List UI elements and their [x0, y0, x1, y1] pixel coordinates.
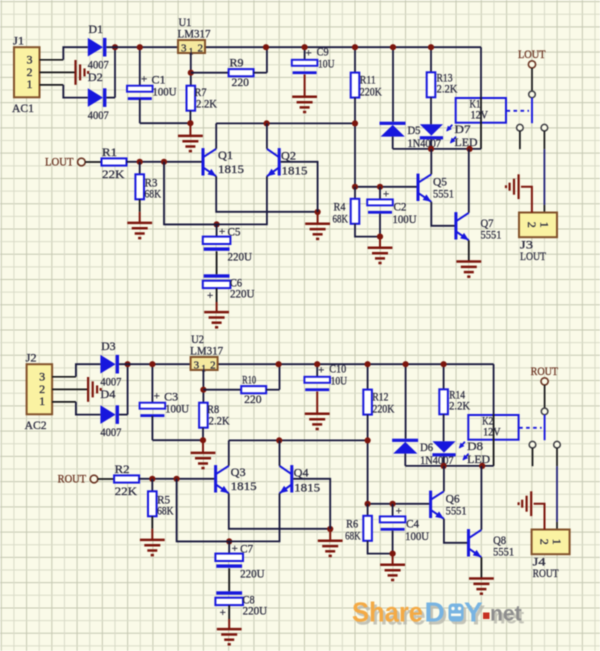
resistor R5 68K [148, 491, 157, 516]
wire rail to K2 [493, 364, 495, 415]
wire rectifier output [119, 414, 128, 416]
wire R11 down [354, 98, 356, 187]
svg-text:22K: 22K [115, 484, 138, 498]
ground below Q7 [456, 262, 481, 277]
transistor Q2 1815 (mirrored) [267, 148, 279, 176]
svg-text:12V: 12V [483, 424, 501, 438]
relay common contact [529, 91, 536, 98]
transistor Q8 5551 [469, 529, 482, 557]
wire U2 adj [202, 370, 204, 403]
wire Q3 collector [228, 440, 230, 465]
wire rail to D6 [405, 364, 407, 439]
svg-text:3: 3 [194, 360, 200, 372]
relay contact NO [541, 124, 548, 131]
junction (115,47.2) [125, 361, 131, 367]
wire to R4 [354, 187, 356, 199]
junction (469.6,148.9) [479, 463, 485, 469]
svg-text:100U: 100U [165, 402, 189, 416]
J2 pin 3 lead [52, 376, 76, 378]
svg-text:D4: D4 [100, 387, 115, 401]
ground below R7 [178, 136, 203, 151]
svg-text:1: 1 [39, 394, 45, 408]
ground below C2 [368, 248, 393, 263]
svg-text:+: + [306, 48, 312, 60]
svg-text:220U: 220U [243, 603, 268, 617]
junction (190.8,72.7) [200, 387, 206, 393]
wire to C7 [228, 541, 230, 553]
transistor Q3 1815 [216, 465, 229, 493]
svg-text:100U: 100U [393, 212, 417, 226]
ground below R3 [127, 223, 152, 238]
transistor Q6 5551 [431, 491, 444, 519]
wire U1 adj [190, 53, 192, 86]
svg-text:D1: D1 [89, 22, 104, 36]
resistor R3 68K [135, 174, 144, 199]
ground at emitter node [305, 224, 330, 239]
relay K1 coil line [480, 98, 482, 149]
svg-text:220U: 220U [230, 286, 255, 300]
svg-text:5551: 5551 [481, 227, 502, 241]
wire R6 bottom [368, 541, 393, 554]
wire R4 bottom [355, 224, 380, 237]
ground below C9 [292, 97, 317, 112]
junction (393,47.2) [390, 44, 396, 50]
junction (266.6,123.4) [264, 120, 270, 126]
resistor R1 22K [102, 158, 127, 165]
wire Q2 emitter [164, 176, 267, 224]
capacitor C5 220U [203, 237, 231, 244]
svg-text:220K: 220K [372, 402, 394, 416]
svg-text:R1: R1 [102, 145, 117, 159]
capacitor C6 220U [204, 274, 230, 277]
svg-text:1815: 1815 [282, 163, 308, 177]
wire rail to R14 [443, 364, 445, 389]
svg-text:+: + [383, 189, 389, 201]
wire D6 anode [404, 454, 406, 466]
wire C7 to C8 [228, 568, 230, 591]
svg-text:LM317: LM317 [190, 344, 223, 358]
connector J4 (ROUT) [532, 530, 570, 555]
resistor R2 22K [114, 475, 139, 482]
stem [316, 392, 318, 414]
stem [216, 302, 218, 312]
svg-text:C7: C7 [240, 542, 253, 556]
svg-text:1: 1 [537, 222, 551, 228]
svg-text:4007: 4007 [100, 425, 121, 439]
wire port to contact [531, 68, 533, 91]
relay K2 coil line [493, 415, 495, 466]
svg-text:5551: 5551 [446, 503, 467, 517]
svg-text:220K: 220K [360, 85, 382, 99]
wire to C4 [392, 504, 394, 517]
svg-text:1815: 1815 [218, 162, 244, 176]
relay common contact [541, 408, 548, 415]
svg-text:68K: 68K [157, 504, 174, 518]
svg-text:C5: C5 [228, 225, 241, 239]
wire NC stub [519, 131, 521, 149]
wire port to R1 [85, 161, 101, 163]
svg-text:J1: J1 [13, 34, 24, 48]
junction (380,186.8) [377, 184, 383, 190]
junction (216.6,224.4) [226, 538, 232, 544]
connector J3 (LOUT) [519, 213, 557, 238]
diode D6 1N4007 [392, 439, 418, 442]
wire base row in [127, 161, 202, 163]
wire adj to R10 [203, 389, 241, 391]
svg-text:10U: 10U [318, 56, 335, 70]
svg-text:Y: Y [464, 597, 483, 628]
svg-text:2: 2 [525, 222, 539, 228]
junction (431,47.2) [428, 44, 434, 50]
wire R3 to ground [139, 199, 141, 212]
wire C3 to gnd net [151, 416, 153, 440]
svg-text:D2: D2 [88, 70, 103, 84]
stem [139, 212, 141, 223]
wire to R3 [139, 162, 141, 175]
resistor R12 220K [363, 390, 372, 415]
J1 pin 3 lead [40, 59, 64, 61]
ground at J4 [519, 491, 532, 516]
junction (190.8,72.7) [188, 70, 194, 76]
connector J1 (AC1) [14, 47, 40, 97]
svg-text:+: + [207, 290, 213, 302]
svg-text:+: + [141, 74, 147, 86]
stem [228, 619, 230, 629]
junction (317.6,212) [327, 526, 333, 532]
svg-text:+: + [318, 365, 324, 377]
contact arm [544, 415, 546, 441]
wire NO to J4 [556, 466, 558, 522]
svg-text:AC2: AC2 [25, 418, 47, 432]
svg-text:5551: 5551 [433, 186, 454, 200]
svg-text:1815: 1815 [231, 479, 257, 493]
svg-text:2.2K: 2.2K [449, 399, 470, 413]
svg-text:2.2K: 2.2K [209, 414, 230, 428]
svg-text:LM317: LM317 [178, 27, 211, 41]
wire NO stub [543, 131, 545, 149]
wire C5 to C6 [216, 251, 218, 274]
ground below C4 [380, 565, 405, 580]
resistor R6 68K [363, 516, 372, 541]
wire to C3 [151, 364, 153, 403]
resistor R7 2.2K [187, 86, 196, 111]
diode D4 4007 [100, 405, 115, 424]
wire pin3 to rail [63, 47, 88, 60]
J1 pin 1 lead [40, 84, 64, 86]
wire NO stub [556, 448, 558, 466]
svg-text:2.2K: 2.2K [437, 82, 458, 96]
junction (190.4,123.2) [187, 120, 193, 126]
capacitor C2 100U [367, 199, 393, 205]
wire rail to C10 [316, 364, 318, 377]
svg-text:220U: 220U [228, 250, 253, 264]
junction (304.6,47.2) [302, 44, 308, 50]
svg-text:D7: D7 [455, 122, 471, 136]
junction (355,47.2) [365, 361, 371, 367]
junction (190.4,123.2) [200, 437, 206, 443]
wire Q7 collector [468, 149, 470, 213]
ground below R8 [191, 453, 216, 468]
svg-text:AC1: AC1 [12, 101, 34, 115]
junction (393,47.2) [403, 361, 409, 367]
svg-text:+: + [232, 543, 238, 555]
wire Q4 emitter [177, 493, 280, 541]
ground below R5 [140, 540, 165, 555]
svg-text:net: net [490, 603, 522, 626]
svg-text:2: 2 [210, 360, 216, 372]
ground at J1 pin 2 [76, 60, 89, 85]
watermark ShareDIY.net [352, 597, 524, 631]
svg-text:+: + [396, 506, 402, 518]
relay K2 12V [468, 415, 518, 440]
svg-text:Q2: Q2 [281, 149, 296, 163]
junction (266,47.2) [263, 44, 269, 50]
junction (431,47.2) [441, 361, 447, 367]
wire R10 to rail [266, 389, 279, 391]
junction (139.8,47.2) [137, 44, 143, 50]
junction (139.8,47.2) [149, 361, 155, 367]
wire +V rail [119, 363, 494, 365]
transistor Q4 1815 (mirrored) [280, 465, 292, 493]
junction (164,161.8) [174, 476, 180, 482]
ground below C8 [217, 629, 242, 644]
wire Q6 collector [443, 466, 445, 491]
relay contact NC [517, 124, 524, 131]
junction (380,236.6) [390, 551, 396, 557]
junction (355,123.4) [352, 120, 358, 126]
capacitor C4 100U [380, 516, 406, 522]
svg-text:68K: 68K [333, 212, 349, 226]
stem [202, 440, 204, 452]
wire Q8 emitter [480, 557, 482, 578]
resistor R4 68K [351, 199, 360, 224]
stem [379, 237, 381, 248]
svg-text:LED: LED [467, 452, 490, 466]
svg-text:22K: 22K [102, 167, 125, 181]
wire rail to K1 [480, 47, 482, 98]
svg-text:+: + [220, 607, 226, 619]
ground at J2 pin 2 [88, 377, 101, 402]
svg-text:D6: D6 [420, 440, 433, 454]
wire NC stub [532, 448, 534, 466]
resistor R10 220 [241, 386, 266, 393]
capacitor C7 220U [215, 554, 243, 561]
wire relay bottom loop [393, 148, 481, 150]
wire Q2 collector [266, 123, 268, 148]
wire port to R2 [98, 478, 114, 480]
svg-text:+: + [154, 391, 160, 403]
stem [151, 529, 153, 540]
junction (216.6,224.4) [214, 221, 220, 227]
resistor R8 2.2K [199, 403, 208, 428]
wire Q5 emitter [431, 202, 454, 226]
svg-text:+: + [219, 226, 225, 238]
wire R13 to D7 [430, 97, 432, 124]
svg-text:1: 1 [550, 539, 564, 545]
svg-text:100U: 100U [405, 529, 429, 543]
diode D5 1N4007 [380, 122, 406, 125]
relay contact NO [554, 441, 561, 448]
svg-text:Share: Share [352, 597, 423, 628]
junction (380,236.6) [377, 234, 383, 240]
regulator U1 LM317 [178, 40, 205, 53]
junction (266.6,123.4) [276, 437, 282, 443]
wire adj to R9 [191, 72, 229, 74]
resistor R14 2.2K [439, 389, 448, 414]
ground at emitter node [318, 541, 343, 556]
junction (355,186.8) [352, 184, 358, 190]
J2 pin 1 lead [52, 401, 76, 403]
svg-text:1815: 1815 [294, 480, 320, 494]
capacitor C3 100U [140, 403, 166, 409]
svg-text:LED: LED [455, 135, 478, 149]
svg-text:2: 2 [538, 539, 552, 545]
wire rail to R13 [430, 47, 432, 72]
wire D8 cathode [443, 456, 445, 466]
ground at J3 [506, 174, 519, 199]
svg-text:R10: R10 [242, 373, 256, 387]
wire Q4 base [293, 479, 330, 529]
wire to C1 [139, 47, 141, 85]
wire C6 to ground [216, 288, 218, 302]
wire Q1 collector [215, 123, 217, 148]
ground below C6 [204, 312, 229, 327]
wire R9 to rail [254, 72, 267, 74]
junction (317.6,212) [315, 209, 321, 215]
junction (164,161.8) [161, 159, 167, 165]
capacitor C8 220U [216, 591, 242, 594]
junction (355,47.2) [352, 44, 358, 50]
wire Q1 emitter [216, 176, 317, 212]
svg-text:D: D [425, 597, 445, 628]
contact arm [531, 98, 533, 124]
wire to R5 [151, 479, 153, 492]
wire C1 to gnd net [139, 99, 141, 123]
svg-text:J2: J2 [26, 351, 37, 365]
svg-text:3: 3 [181, 43, 187, 55]
wire C2 bottom [379, 214, 381, 237]
J2 pin 2 lead [52, 388, 87, 390]
wire rail to D5 [392, 47, 394, 122]
junction (469.6,148.9) [467, 146, 473, 152]
junction (355,123.4) [365, 437, 371, 443]
svg-text:2.2K: 2.2K [196, 97, 217, 111]
ground below C10 [305, 414, 330, 429]
wire mid rail [216, 122, 355, 124]
svg-text:ROUT: ROUT [58, 471, 87, 485]
LED D7 [420, 124, 443, 135]
wire C8 to ground [228, 605, 230, 619]
wire rail to C9 [304, 47, 306, 60]
junction (266,47.2) [276, 361, 282, 367]
wire base row [355, 186, 417, 188]
wire rail to R11 [354, 47, 356, 72]
capacitor C10 10U [304, 377, 330, 383]
wire C4 bottom [392, 531, 394, 554]
wire pin1 to lower diode [63, 85, 88, 98]
svg-text:220: 220 [232, 75, 250, 89]
svg-text:Q4: Q4 [294, 466, 309, 480]
svg-text:LOUT: LOUT [520, 249, 547, 263]
transistor Q5 5551 [418, 174, 431, 202]
svg-text:LOUT: LOUT [518, 47, 546, 61]
junction (115,47.2) [112, 44, 118, 50]
junction (139.7,161.8) [137, 159, 143, 165]
svg-text:68K: 68K [345, 529, 361, 543]
svg-text:220U: 220U [240, 567, 265, 581]
junction (380,186.8) [390, 501, 396, 507]
diode D2 4007 [88, 88, 103, 107]
transistor Q7 5551 [456, 212, 469, 240]
capacitor C1 100U [127, 86, 153, 92]
svg-text:D8: D8 [467, 439, 483, 453]
wire feedback left [164, 162, 217, 225]
dashed actuator link [507, 110, 530, 112]
junction (355,186.8) [365, 501, 371, 507]
svg-text:R2: R2 [115, 462, 130, 476]
svg-text:10U: 10U [331, 373, 348, 387]
ground below Q8 [469, 579, 494, 594]
resistor R13 2.2K [427, 72, 436, 97]
wire D7 cathode [430, 139, 432, 149]
diode D1 4007 [88, 38, 103, 57]
stem [189, 123, 191, 135]
wire rail to R12 [367, 364, 369, 389]
svg-text:D3: D3 [101, 339, 116, 353]
wire mid rail [229, 439, 368, 441]
wire port to contact [544, 385, 546, 408]
connector J2 (AC2) [27, 364, 52, 414]
stem [392, 554, 394, 565]
capacitor C9 10U [292, 60, 318, 66]
svg-text:ROUT: ROUT [533, 566, 560, 580]
svg-text:Q1: Q1 [218, 148, 233, 162]
wire Q4 collector [279, 440, 281, 465]
relay contact NC [529, 441, 536, 448]
svg-text:ROUT: ROUT [531, 364, 559, 378]
wire rectifier output [107, 97, 116, 99]
wire R12 down [367, 415, 369, 504]
wire Q5 collector [430, 149, 432, 174]
svg-text:100U: 100U [153, 85, 177, 99]
svg-text:D5: D5 [408, 123, 421, 137]
svg-text:1: 1 [27, 77, 33, 91]
svg-text:R9: R9 [230, 56, 244, 70]
wire Q3 emitter [229, 493, 330, 529]
svg-text:4007: 4007 [88, 108, 109, 122]
svg-text:12V: 12V [471, 107, 489, 121]
relay K1 12V [456, 98, 506, 123]
J1 pin 2 lead [40, 71, 75, 73]
stem [304, 75, 306, 97]
junction (304.6,47.2) [314, 361, 320, 367]
wire Q6 emitter [444, 519, 467, 543]
wire feedback left [177, 479, 230, 542]
junction (431,148.9) [441, 463, 447, 469]
regulator U2 LM317 [191, 357, 218, 370]
stem [329, 529, 331, 541]
wire to R6 [367, 504, 369, 516]
svg-text:5551: 5551 [493, 544, 514, 558]
wire relay bottom loop [405, 465, 493, 467]
wire base row in [139, 478, 214, 480]
wire R5 to ground [151, 516, 153, 529]
wire R8 to ground [202, 428, 204, 441]
diode D3 4007 [100, 355, 115, 374]
resistor R9 220 [229, 69, 254, 76]
svg-text:LOUT: LOUT [45, 154, 74, 168]
wire Q7 emitter [468, 240, 470, 261]
